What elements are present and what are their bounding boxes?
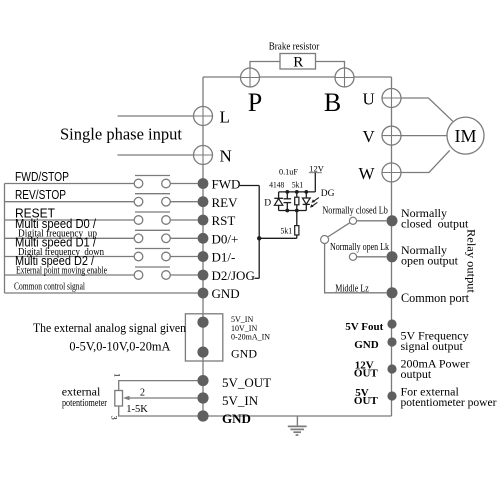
switch D0 bar	[135, 229, 170, 231]
svg-text:5k1: 5k1	[281, 226, 293, 236]
wire D2 row left	[5, 274, 135, 276]
node GND control	[198, 288, 209, 299]
node D1/-	[198, 251, 209, 262]
analog input box	[185, 314, 222, 361]
node analog gnd	[197, 347, 208, 358]
svg-text:0-20mA_IN: 0-20mA_IN	[231, 333, 270, 342]
wire pot wiper	[128, 397, 197, 399]
wire bottom rail	[279, 210, 307, 212]
wire bottom bus	[203, 415, 392, 417]
diode D 4148	[274, 192, 283, 211]
wire V to motor	[401, 135, 447, 137]
wire pot bottom	[119, 406, 198, 416]
contact Lb	[349, 217, 356, 224]
wire N input	[118, 154, 194, 156]
svg-text:12V: 12V	[309, 163, 325, 173]
terminal L	[194, 107, 213, 126]
svg-text:U: U	[363, 90, 375, 109]
terminal V	[382, 126, 401, 145]
capacitor 0.1uF	[284, 192, 292, 211]
resistor 5k1 upper	[295, 192, 299, 211]
node GND bottom	[197, 410, 208, 421]
potentiometer body	[115, 391, 123, 407]
wire RST row left	[5, 219, 135, 221]
node Lb	[387, 215, 398, 226]
svg-text:OUT: OUT	[354, 367, 379, 379]
resistor R	[280, 54, 316, 70]
svg-text:D2/JOG: D2/JOG	[212, 268, 255, 283]
svg-text:IM: IM	[455, 126, 477, 146]
svg-text:0.1uF: 0.1uF	[279, 166, 298, 176]
node 5V OUT	[387, 391, 396, 400]
node FWD	[198, 178, 209, 189]
wire tap vertical	[258, 186, 260, 279]
switch D0 contact a	[134, 234, 143, 243]
wire top rail	[279, 191, 316, 193]
svg-text:1-5K: 1-5K	[126, 404, 148, 415]
wire 12V drop	[314, 173, 316, 192]
svg-text:GND: GND	[354, 339, 379, 351]
wire top bus	[203, 76, 392, 78]
switch FWD bar	[135, 175, 170, 177]
switch D1 contact a	[134, 252, 143, 261]
node 5V_OUT	[197, 375, 208, 386]
svg-text:Middle Lz: Middle Lz	[335, 283, 369, 294]
node REV	[198, 196, 209, 207]
resistor 5k1 lower	[295, 211, 299, 239]
wire FWD row right	[170, 183, 197, 185]
svg-text:GND: GND	[212, 286, 240, 301]
wire D1 row left	[5, 256, 135, 258]
node common port	[387, 287, 398, 298]
node 12V OUT	[387, 364, 396, 373]
switch REV contact b	[162, 197, 171, 206]
switch REV contact a	[134, 197, 143, 206]
svg-text:D: D	[264, 199, 271, 209]
switch RST contact b	[162, 216, 171, 225]
node D0/+	[198, 233, 209, 244]
svg-text:5V_OUT: 5V_OUT	[222, 375, 271, 390]
svg-text:open output: open output	[401, 254, 459, 268]
svg-text:GND: GND	[231, 347, 257, 361]
switch D1 bar	[135, 248, 170, 250]
power 12V bar	[309, 172, 322, 174]
contact Lk	[349, 253, 356, 260]
switch D2 contact a	[134, 271, 143, 280]
svg-text:P: P	[248, 88, 262, 117]
wire left bus	[202, 77, 204, 416]
switch REV bar	[135, 193, 170, 195]
svg-text:D0/+: D0/+	[212, 232, 239, 247]
svg-text:Normally closed Lb: Normally closed Lb	[322, 206, 388, 217]
wire common row	[5, 292, 198, 294]
led DG	[302, 192, 310, 211]
svg-text:GND: GND	[222, 411, 251, 426]
svg-text:The external analog signal giv: The external analog signal given	[33, 320, 186, 335]
svg-text:5V_IN: 5V_IN	[222, 393, 259, 408]
junction bottom rail	[285, 209, 289, 213]
svg-text:0-5V,0-10V,0-20mA: 0-5V,0-10V,0-20mA	[69, 339, 171, 354]
junction tap	[257, 236, 261, 240]
wire right bus	[391, 77, 393, 416]
switch FWD contact b	[162, 179, 171, 188]
svg-text:10V_IN: 10V_IN	[231, 324, 257, 333]
svg-text:D1/-: D1/-	[212, 250, 236, 265]
svg-text:L: L	[220, 108, 230, 127]
wire FWD tap	[239, 185, 260, 187]
wire D1 row right	[170, 256, 197, 258]
svg-text:N: N	[220, 147, 232, 166]
svg-text:5k1: 5k1	[292, 180, 304, 190]
relay arm	[328, 223, 350, 237]
svg-text:signal output: signal output	[401, 339, 464, 353]
svg-text:output: output	[401, 367, 432, 381]
terminal B	[335, 68, 354, 87]
terminal U	[382, 89, 401, 108]
node 5V_IN	[197, 392, 208, 403]
terminal W	[382, 163, 401, 182]
wire FWD row left	[5, 183, 135, 185]
wire D2 row right	[170, 274, 197, 276]
svg-text:REV/STOP: REV/STOP	[15, 187, 66, 202]
svg-text:Brake resistor: Brake resistor	[269, 42, 320, 53]
switch RST contact a	[134, 216, 143, 225]
svg-text:Relay output: Relay output	[465, 229, 479, 294]
led DG arrows	[310, 198, 319, 208]
wire D2/JOG tap	[255, 277, 260, 279]
wire REV row left	[5, 201, 135, 203]
svg-text:Common port: Common port	[401, 291, 470, 305]
wire pot top	[119, 381, 198, 391]
svg-text:3: 3	[110, 416, 120, 420]
svg-text:4148: 4148	[269, 180, 284, 190]
wire W to motor	[401, 150, 450, 172]
switch D2 bar	[135, 266, 170, 268]
svg-text:External point moving enable: External point moving enable	[16, 265, 107, 276]
wire brake loop left	[250, 62, 280, 70]
node D2/JOG	[198, 270, 209, 281]
switch D1 contact b	[162, 252, 171, 261]
switch RST bar	[135, 211, 170, 213]
terminal N	[194, 146, 213, 165]
svg-text:DG: DG	[321, 189, 335, 199]
wire Lb	[357, 220, 387, 222]
svg-text:FWD: FWD	[212, 177, 241, 192]
svg-text:5V Fout: 5V Fout	[345, 321, 383, 333]
relay pivot	[321, 236, 329, 244]
switch D2 contact b	[162, 271, 171, 280]
node RST	[198, 215, 209, 226]
switch FWD contact a	[134, 179, 143, 188]
wire U to motor	[401, 98, 453, 121]
wire Lk	[357, 256, 387, 258]
wire REV row right	[170, 201, 197, 203]
svg-text:5V_IN: 5V_IN	[231, 315, 253, 324]
svg-text:Single phase input: Single phase input	[60, 125, 182, 144]
node 5V Fout	[387, 319, 396, 328]
terminal P	[241, 68, 260, 87]
svg-text:potentiometer: potentiometer	[62, 398, 107, 409]
wire pivot drop	[325, 244, 387, 293]
wire D0 row left	[5, 237, 135, 239]
junction top rail	[285, 190, 289, 194]
wire brake loop right	[316, 62, 345, 70]
node Lk	[387, 251, 398, 262]
svg-text:Normally open Lk: Normally open Lk	[330, 242, 389, 253]
wire D0 row right	[170, 237, 197, 239]
svg-text:closed output: closed output	[401, 217, 469, 231]
motor IM	[447, 117, 484, 154]
svg-text:V: V	[363, 127, 376, 146]
svg-text:potentiometer power: potentiometer power	[401, 395, 497, 409]
switch D0 contact b	[162, 234, 171, 243]
svg-text:2: 2	[140, 388, 145, 399]
node GND right	[387, 337, 396, 346]
wire left common bus	[4, 184, 6, 294]
svg-text:RST: RST	[212, 213, 236, 228]
svg-text:REV: REV	[212, 195, 239, 210]
svg-text:B: B	[324, 88, 341, 117]
node analog in	[197, 317, 208, 328]
svg-text:Common control signal: Common control signal	[14, 282, 85, 293]
svg-text:R: R	[293, 54, 303, 70]
wire RST row right	[170, 219, 197, 221]
svg-text:OUT: OUT	[354, 395, 379, 407]
wire L input	[118, 115, 194, 117]
ground	[288, 416, 307, 435]
svg-text:FWD/STOP: FWD/STOP	[15, 169, 69, 184]
svg-text:W: W	[359, 164, 376, 183]
wire tap horizontal	[259, 237, 297, 239]
svg-text:1: 1	[113, 373, 123, 377]
svg-text:external: external	[62, 385, 101, 399]
